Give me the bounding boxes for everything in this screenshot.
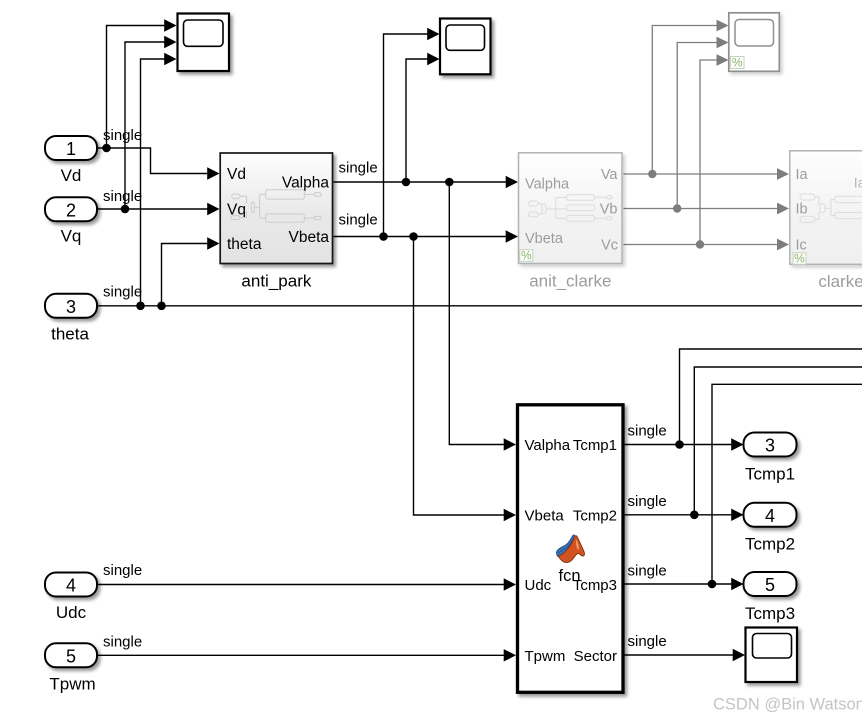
arrowhead anit_clarke Vbeta xyxy=(506,230,518,242)
svg-text:5: 5 xyxy=(765,575,775,595)
arrowhead outport Tcmp2 xyxy=(731,509,743,521)
arrowhead fcn Vbeta xyxy=(504,509,516,521)
svg-text:3: 3 xyxy=(66,297,76,317)
svg-text:Tcmp2: Tcmp2 xyxy=(573,508,617,525)
arrowhead Scope3 input1 gray xyxy=(717,20,729,32)
node junction Tcmp2 xyxy=(690,511,699,520)
svg-text:single: single xyxy=(628,633,667,650)
svg-text:anti_park: anti_park xyxy=(241,272,311,291)
arrowhead Scope1 input3 xyxy=(164,53,176,65)
arrowhead Scope2 input1 xyxy=(427,28,439,40)
svg-text:Tpwm: Tpwm xyxy=(49,675,95,694)
arrowhead Scope3 input2 gray xyxy=(717,37,729,49)
svg-text:2: 2 xyxy=(66,200,76,220)
wire Vc branch to Scope3 input3 xyxy=(700,60,718,245)
svg-text:theta: theta xyxy=(227,236,262,253)
node junction theta1 xyxy=(136,302,145,311)
node junction Vq xyxy=(121,205,130,214)
node junction Vbeta2 xyxy=(409,232,418,241)
wire Valpha to anit_clarke xyxy=(334,181,508,183)
svg-text:clarke: clarke xyxy=(818,272,862,291)
svg-text:Ia: Ia xyxy=(854,175,862,191)
inport 5 Tpwm xyxy=(45,643,97,693)
anti_park preview icon xyxy=(231,190,321,223)
wire Vd branch to Scope1 input1 xyxy=(107,26,166,149)
inport 3 theta xyxy=(45,294,97,344)
wire Vq branch to Scope1 input2 xyxy=(125,42,166,209)
node junction Tcmp1 xyxy=(675,440,684,449)
svg-text:Valpha: Valpha xyxy=(282,174,329,191)
svg-text:3: 3 xyxy=(765,436,775,456)
wire Vc gray to clarke xyxy=(624,244,779,246)
svg-text:Vq: Vq xyxy=(61,227,82,246)
svg-text:1: 1 xyxy=(66,139,76,159)
svg-text:Sector: Sector xyxy=(574,648,617,665)
svg-text:5: 5 xyxy=(66,646,76,666)
svg-text:single: single xyxy=(103,284,142,301)
svg-text:Ia: Ia xyxy=(796,167,809,183)
svg-text:4: 4 xyxy=(66,576,76,596)
arrowhead anti_park Vd xyxy=(207,167,219,179)
wire Valpha branch to fcn xyxy=(449,182,505,445)
svg-text:Tcmp3: Tcmp3 xyxy=(745,604,795,623)
svg-text:Valpha: Valpha xyxy=(525,437,571,454)
subsystem anit_clarke commented out xyxy=(519,153,623,264)
inport 1 Vd xyxy=(45,136,97,185)
wire theta across sheet xyxy=(97,305,862,307)
svg-text:Udc: Udc xyxy=(525,577,552,594)
arrowhead fcn Tpwm xyxy=(504,649,516,661)
arrowhead outport Tcmp3 xyxy=(731,578,743,590)
svg-text:CSDN @Bin Watson: CSDN @Bin Watson xyxy=(713,696,862,714)
wire Va gray to clarke xyxy=(624,173,779,175)
svg-text:Ib: Ib xyxy=(796,202,808,218)
node junction Vc xyxy=(696,240,704,248)
arrowhead Scope3 input3 gray xyxy=(717,54,729,66)
wire Vd to anti_park xyxy=(97,148,209,174)
svg-text:Vbeta: Vbeta xyxy=(525,231,564,247)
arrowhead fcn Udc xyxy=(504,578,516,590)
svg-text:Vc: Vc xyxy=(601,238,618,254)
svg-text:Tpwm: Tpwm xyxy=(525,648,566,665)
node junction Tcmp3 xyxy=(708,580,717,589)
wire Tcmp2 to outport4 xyxy=(625,514,733,516)
svg-text:single: single xyxy=(628,423,667,440)
scope Scope2 xyxy=(440,19,491,75)
svg-text:single: single xyxy=(628,562,667,579)
svg-text:%: % xyxy=(794,251,805,265)
node junction theta2 xyxy=(157,302,166,311)
inport 2 Vq xyxy=(45,197,97,245)
arrowhead anit_clarke Valpha xyxy=(506,176,518,188)
wire Vq to anti_park xyxy=(97,208,209,210)
svg-text:single: single xyxy=(103,634,142,651)
wire Tcmp3 to outport5 xyxy=(625,583,733,585)
arrowhead clarke Ib gray xyxy=(777,203,789,215)
inport 4 Udc xyxy=(45,573,97,623)
node junction Vbeta1 xyxy=(379,232,388,241)
wire Tcmp1 branch right xyxy=(680,349,862,445)
arrowhead outport Tcmp1 xyxy=(731,438,743,450)
arrowhead clarke Ia gray xyxy=(777,168,789,180)
svg-text:%: % xyxy=(732,55,743,69)
svg-text:Vbeta: Vbeta xyxy=(525,508,565,525)
svg-text:anit_clarke: anit_clarke xyxy=(529,272,611,291)
svg-text:Vbeta: Vbeta xyxy=(288,229,329,246)
node junction Vb xyxy=(673,204,681,212)
wire Valpha branch to Scope2 input2 xyxy=(406,59,429,182)
arrowhead Scope1 input1 xyxy=(164,19,176,31)
wire Tpwm to fcn xyxy=(98,654,505,656)
wire Vb branch to Scope3 input2 xyxy=(677,43,717,209)
svg-text:single: single xyxy=(339,212,378,229)
wire Tcmp3 branch right xyxy=(712,384,862,584)
svg-text:%: % xyxy=(521,248,532,262)
svg-text:theta: theta xyxy=(51,325,89,344)
node junction Valpha2 xyxy=(445,178,454,187)
outport 5 Tcmp3 xyxy=(744,572,797,623)
scope Scope3 commented out xyxy=(729,13,780,72)
wire Sector to Scope4 xyxy=(625,654,735,656)
wire Udc to fcn xyxy=(98,584,505,586)
arrowhead clarke Ic gray xyxy=(777,239,789,251)
node junction Va xyxy=(648,170,656,178)
arrowhead anti_park theta xyxy=(207,237,219,249)
svg-text:Tcmp2: Tcmp2 xyxy=(745,535,795,554)
MATLAB function block fcn xyxy=(518,405,624,693)
subsystem anti_park xyxy=(220,153,332,264)
wire Vb gray to clarke xyxy=(624,208,779,210)
wire Vbeta to anit_clarke xyxy=(334,236,508,238)
svg-text:Tcmp1: Tcmp1 xyxy=(573,437,617,454)
svg-text:single: single xyxy=(339,159,378,176)
svg-text:fcn: fcn xyxy=(558,567,580,585)
svg-text:4: 4 xyxy=(765,506,775,526)
wire Vbeta branch to fcn xyxy=(414,237,506,516)
scope Scope4 xyxy=(746,628,798,683)
outport 3 Tcmp1 xyxy=(744,433,797,484)
svg-text:single: single xyxy=(103,127,142,144)
svg-text:Valpha: Valpha xyxy=(525,176,570,192)
arrowhead anti_park Vq xyxy=(207,203,219,215)
svg-text:Va: Va xyxy=(601,167,619,183)
arrowhead Scope4 input xyxy=(733,649,745,661)
subsystem clarke commented out, clipped at right edge xyxy=(790,151,862,265)
svg-text:Vd: Vd xyxy=(61,166,82,185)
clarke preview icon xyxy=(800,194,862,223)
arrowhead fcn Valpha xyxy=(504,438,516,450)
arrowhead Scope1 input2 xyxy=(164,36,176,48)
node junction Vd xyxy=(102,144,111,153)
wire Vbeta branch to Scope2 input1 xyxy=(384,34,429,237)
wire theta branch to Scope1 input3 xyxy=(141,59,166,306)
svg-text:Tcmp1: Tcmp1 xyxy=(745,465,795,484)
svg-text:single: single xyxy=(103,562,142,579)
wire Tcmp2 branch right xyxy=(694,367,862,515)
arrowhead Scope2 input2 xyxy=(427,53,439,65)
svg-text:Vb: Vb xyxy=(600,202,618,218)
svg-text:single: single xyxy=(628,493,667,510)
outport 4 Tcmp2 xyxy=(744,503,797,554)
scope Scope1 xyxy=(178,14,230,72)
svg-text:single: single xyxy=(103,188,142,205)
svg-text:Udc: Udc xyxy=(56,603,87,622)
wire Va branch to Scope3 input1 xyxy=(652,26,717,175)
wire theta branch to anti_park theta xyxy=(162,244,209,306)
anit_clarke preview icon xyxy=(529,195,613,221)
node junction Valpha1 xyxy=(402,178,411,187)
svg-text:Vd: Vd xyxy=(227,166,246,183)
MATLAB membrane logo xyxy=(557,535,585,563)
wire Tcmp1 to outport3 xyxy=(625,444,733,446)
